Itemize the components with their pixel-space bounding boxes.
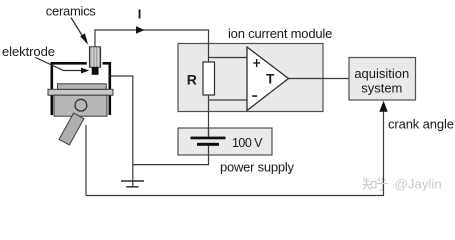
piston wrist pin [75, 99, 87, 111]
acquisition system box [349, 58, 416, 101]
svg-text:system: system [361, 81, 402, 96]
svg-text:ceramics: ceramics [46, 4, 97, 19]
wire: cylinder block to ground net [111, 76, 133, 187]
engine cylinder walls and head [51, 62, 112, 115]
svg-text:T: T [266, 71, 275, 86]
spark plug ceramics body [89, 47, 100, 67]
wire: + input of op-amp [209, 57, 248, 59]
svg-text:power supply: power supply [220, 159, 295, 174]
svg-text:I: I [138, 7, 142, 22]
leader arrow: elektrode to electrode tip [36, 58, 90, 74]
svg-text:aquisition: aquisition [354, 66, 409, 81]
svg-text:@Jaylin: @Jaylin [395, 177, 442, 192]
resistor R1 [203, 62, 215, 95]
current direction arrow on top wire [136, 26, 145, 33]
svg-text:100 V: 100 V [232, 136, 263, 150]
wire: - input of op-amp [209, 99, 248, 101]
piston body [54, 95, 107, 116]
ion current module box [178, 44, 323, 112]
crank angle up arrow [379, 101, 387, 112]
wire: battery negative to ground net [133, 146, 209, 165]
connecting rod [59, 113, 84, 145]
svg-text:crank angle: crank angle [388, 116, 454, 131]
wire: resistor bottom to battery positive [208, 95, 210, 138]
wire: spark plug to module top (current path) [95, 30, 209, 63]
spark plug electrode tip [92, 67, 99, 74]
svg-text:R: R [187, 72, 197, 88]
op-amp - input label [252, 95, 257, 97]
svg-text:elektrode: elektrode [2, 44, 55, 59]
piston ring band [48, 89, 113, 95]
op-amp T (triangle) [247, 47, 289, 111]
power supply battery box [178, 128, 272, 155]
piston crown [58, 84, 107, 90]
ground symbol [121, 181, 144, 187]
svg-text:ion current module: ion current module [228, 26, 332, 41]
op-amp + input label [253, 59, 260, 67]
battery symbol 100V [191, 128, 226, 146]
wire: bottom bus to crank angle input [86, 111, 384, 196]
leader arrow: ceramics to plug [71, 18, 88, 45]
wire: op-amp output to acquisition system [289, 78, 350, 80]
watermark [363, 178, 388, 191]
wire: crank signal from crankshaft down [85, 125, 87, 196]
